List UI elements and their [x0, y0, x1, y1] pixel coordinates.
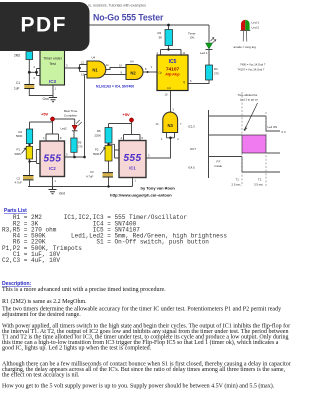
svg-text:This is a more advanced unit w: This is a more advanced unit with a prec… — [2, 287, 166, 293]
svg-text:270: 270 — [78, 145, 83, 149]
svg-text:Led 1 to go on: Led 1 to go on — [240, 98, 258, 102]
svg-text:No-Go 555 Tester: No-Go 555 Tester — [93, 13, 164, 23]
svg-text:OUT: OUT — [190, 147, 196, 151]
wire N2 output 8 to IC5 pin 1 Cp — [143, 71, 157, 73]
svg-text:How you get to the 5 volt supp: How you get to the 5 volt supply power i… — [2, 383, 275, 390]
svg-text:anode = long leg: anode = long leg — [234, 45, 257, 49]
node A junction — [28, 71, 31, 74]
wire N2 input 9 from node C — [85, 74, 127, 76]
waveform IC2,3 high — [209, 116, 281, 131]
svg-text:Complete: Complete — [64, 114, 77, 118]
capacitor C2 — [23, 176, 34, 180]
svg-text:IC4,5: IC4,5 — [188, 166, 195, 170]
node C bottom junction — [83, 156, 86, 159]
node P1 bottom junction — [28, 160, 30, 162]
waveform OUT low — [266, 152, 280, 154]
svg-text:N1: N1 — [92, 68, 98, 73]
svg-text:+5V: +5V — [123, 112, 131, 117]
svg-text:1uF: 1uF — [14, 87, 20, 91]
waveform IC4,5 — [209, 157, 281, 173]
svg-text:4.7uF: 4.7uF — [86, 175, 93, 179]
wire node A to IC3 pins 2,6 bracket — [29, 69, 40, 76]
svg-text:Led 1: Led 1 — [252, 21, 260, 25]
svg-text:500K: 500K — [15, 152, 22, 156]
node R4 P1 junction — [28, 144, 30, 146]
svg-text:U4: U4 — [130, 60, 134, 64]
P1 wiper arrow — [22, 148, 27, 154]
wire IC3 pin 3 to node B — [65, 67, 80, 69]
PDF badge overlay — [0, 2, 90, 51]
wire IC1 +5V node — [109, 120, 141, 140]
resistor R3 — [206, 65, 213, 80]
resistor R1 — [26, 52, 33, 60]
svg-text:500K: 500K — [16, 134, 23, 138]
wire +5V rail top — [89, 24, 209, 26]
svg-text:C1: C1 — [16, 81, 20, 85]
svg-text:by Tony van Roon: by Tony van Roon — [141, 186, 176, 191]
wire Led2 cathode to R5 — [73, 131, 75, 138]
wire ground rail — [28, 186, 133, 188]
node IC2 output junction — [73, 156, 76, 159]
svg-text:3.5 sec: 3.5 sec — [254, 183, 264, 187]
wire node C long vertical to IC2 output node — [84, 75, 86, 158]
LED symbol red/green — [240, 20, 250, 42]
wire IC5 pin 10 Cd down to N3 output 3 — [170, 91, 172, 114]
wire C2 bottom to rail — [29, 180, 31, 186]
allotted time window — [242, 135, 266, 153]
svg-text:Cd: Cd — [167, 86, 171, 90]
svg-text:555: 555 — [43, 154, 61, 165]
trimpot P1 — [26, 146, 32, 159]
svg-text:2M2: 2M2 — [14, 54, 20, 58]
svg-text:R2: R2 — [158, 31, 162, 35]
wire R3 bottom to IC5 pin 5 Q — [189, 80, 210, 84]
wire R6 P2 junction to IC1 pins — [109, 143, 120, 158]
wire C3 bottom to rail — [108, 177, 110, 186]
capacitor C1 — [24, 85, 34, 89]
node N3 input junction — [169, 137, 172, 140]
svg-text:4.7uF: 4.7uF — [15, 180, 22, 184]
svg-text:Test: Test — [49, 62, 55, 66]
wire N1 output 11 to N2 input 10 — [106, 68, 126, 70]
svg-text:rs, resistors, Tutorials with: rs, resistors, Tutorials with examples — [88, 4, 146, 8]
wire N3 inputs 1,2 bracket — [167, 133, 175, 138]
+5V node dot (IC2) — [50, 117, 54, 121]
nand gate N2 — [126, 65, 143, 80]
svg-text:IC1: IC1 — [129, 166, 136, 171]
svg-text:Flip Flop: Flip Flop — [165, 73, 179, 77]
svg-text:U4: U4 — [92, 56, 96, 60]
svg-text:7400 = Vcc 14,Gnd 7: 7400 = Vcc 14,Gnd 7 — [240, 63, 266, 67]
wire +5V node to Led2 anode — [53, 119, 75, 125]
wire N3 input node down and to IC1 pin 3 — [146, 138, 170, 158]
node C3 rail junction — [107, 185, 109, 187]
node A2 junction — [35, 71, 38, 74]
555 IC2 — [40, 141, 65, 177]
trimpot P2 — [105, 146, 112, 162]
svg-text:Parts List: Parts List — [4, 208, 27, 214]
svg-text:Gnd: Gnd — [43, 97, 49, 101]
svg-text:OK.: OK. — [190, 36, 195, 40]
svg-text:R1 (2M2) is same as 2.2 MegOhm: R1 (2M2) is same as 2.2 MegOhm. — [2, 298, 87, 305]
svg-text:Cp: Cp — [159, 71, 163, 75]
wire node A down to C1 — [28, 72, 30, 84]
wire IC1 pin 1 down — [132, 178, 134, 187]
node R6 P2 junction — [107, 143, 109, 145]
wire R1 top — [28, 46, 30, 52]
svg-text:C3: C3 — [90, 170, 94, 174]
wire Led1 cathode to R3 — [208, 50, 210, 65]
P2 wiper arrow — [100, 148, 105, 155]
dashed marker T2 — [265, 112, 267, 186]
svg-text:N2: N2 — [130, 71, 136, 76]
nand gate N3 — [163, 112, 178, 132]
svg-text:N1,N2,N3 = IC4, SN7400: N1,N2,N3 = IC4, SN7400 — [96, 85, 134, 89]
node B junction — [78, 67, 81, 70]
ground (IC3) — [49, 98, 57, 102]
resistor R4 — [26, 129, 32, 144]
wire C1 bottom to ground — [29, 89, 53, 98]
svg-text:220K: 220K — [95, 134, 102, 138]
wire rail down to Led1 — [208, 25, 210, 43]
svg-text:2.5 sec: 2.5 sec — [232, 183, 242, 187]
wire P2 bottom to C3 — [108, 161, 110, 172]
wire R1 bottom to node A — [28, 60, 30, 73]
svg-text:IC2,3: IC2,3 — [188, 125, 195, 129]
svg-text:F.F.: F.F. — [217, 160, 222, 164]
svg-text:Best Time: Best Time — [64, 109, 78, 113]
svg-text:R3: R3 — [214, 67, 218, 71]
wire node B bracket to N1 inputs 12,13 — [80, 65, 88, 72]
svg-text:T2: T2 — [258, 178, 262, 182]
svg-text:R5: R5 — [78, 141, 82, 145]
IC3 timer under test — [40, 49, 65, 85]
wire R2 bottom to IC5 top bracket — [161, 46, 182, 56]
svg-text:P1: P1 — [17, 148, 21, 152]
dashed marker T1 — [241, 92, 243, 186]
svg-text:C2,C3 = 4uF, 10V: C2,C3 = 4uF, 10V — [2, 257, 60, 264]
svg-text:PDF: PDF — [21, 14, 68, 37]
LED Led2 — [72, 120, 82, 131]
node R2 IC5 bracket junction — [167, 48, 169, 50]
axis — [208, 110, 210, 178]
svg-text:Gnd: Gnd — [59, 192, 65, 196]
annotation arrow — [245, 103, 258, 129]
wire IC2 pin 3 output — [65, 156, 85, 158]
svg-text:good IC, lights up. Led 2 ligh: good IC, lights up. Led 2 lights up when… — [2, 345, 152, 351]
svg-text:0 V: 0 V — [282, 130, 286, 134]
wire R5 to output node — [73, 152, 75, 157]
wire IC2 +5V node — [30, 119, 59, 141]
svg-text:Led2: Led2 — [61, 127, 68, 131]
svg-text:R6: R6 — [97, 129, 101, 133]
svg-text:3K: 3K — [159, 36, 163, 40]
svg-text:T1: T1 — [236, 178, 240, 182]
svg-text:Led 2: Led 2 — [252, 26, 260, 30]
svg-text:74107 = Vcc 14,Gnd 7: 74107 = Vcc 14,Gnd 7 — [238, 68, 265, 72]
+5V node dot (IC1) — [129, 118, 133, 122]
wire R4 P1 junction to IC2 pins — [30, 144, 41, 175]
svg-text:Time allotted for: Time allotted for — [238, 93, 258, 97]
waveform OUT line — [209, 134, 243, 136]
capacitor C3 — [103, 173, 114, 177]
node R2 rail junction — [167, 24, 170, 27]
node N2 output junction — [147, 71, 149, 73]
flip-flop IC5 — [157, 55, 188, 91]
wire IC2 pin 1 down — [52, 177, 54, 187]
svg-text:Led ON: Led ON — [268, 125, 278, 129]
svg-text:the effect on test accuracy is: the effect on test accuracy is nil. — [2, 371, 80, 378]
ground (rail) — [49, 187, 57, 194]
svg-text:270: 270 — [214, 72, 219, 76]
svg-text:IC5: IC5 — [169, 59, 177, 65]
svg-text:500K: 500K — [93, 152, 100, 156]
svg-text:adjustment for the desired ran: adjustment for the desired range. — [2, 311, 81, 318]
svg-text:+5V: +5V — [41, 112, 49, 117]
svg-text:IC2: IC2 — [49, 166, 56, 171]
svg-text:Led 1: Led 1 — [200, 51, 208, 55]
LED Led1 — [206, 38, 217, 50]
svg-text:Inside: Inside — [215, 164, 223, 168]
svg-text:P2: P2 — [95, 148, 99, 152]
svg-text:Timer under: Timer under — [43, 57, 63, 61]
svg-text:http://www.uoguelph.ca/~antoon: http://www.uoguelph.ca/~antoon — [110, 193, 172, 198]
nand gate N1 — [87, 61, 106, 78]
svg-text:N3: N3 — [168, 123, 174, 128]
svg-text:555: 555 — [124, 153, 142, 164]
wire IC3 pin 1 down — [52, 85, 54, 96]
resistor R5 — [71, 138, 77, 152]
resistor R2 — [165, 30, 173, 46]
resistor R6 — [105, 128, 112, 144]
svg-text:IC3: IC3 — [49, 79, 57, 84]
wire R2 top to rail — [168, 25, 170, 30]
555 IC1 — [119, 141, 146, 178]
